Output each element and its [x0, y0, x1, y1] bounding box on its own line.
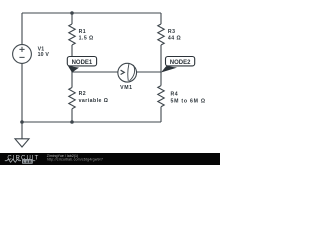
labels V1: [38, 47, 50, 59]
resistor R2: [69, 88, 75, 109]
wire voltmeter to NODE2: [137, 71, 162, 73]
footer bar: [0, 153, 220, 165]
svg-text:NODE2: NODE2: [170, 60, 191, 66]
wire left column bottom: [21, 63, 23, 138]
resistor R1: [69, 24, 75, 45]
svg-text:http://circuitlab.com/c6tg4rgw: http://circuitlab.com/c6tg4rgw9r7: [47, 158, 103, 162]
ground: [15, 139, 29, 147]
wire top rail: [22, 12, 161, 14]
svg-text:10 V: 10 V: [38, 52, 50, 58]
wire middle column NODE1-R2: [71, 72, 73, 88]
junction dot top middle: [70, 11, 74, 15]
labels R3: [168, 29, 181, 41]
wire bottom rail: [22, 121, 161, 123]
svg-text:R2: R2: [79, 91, 87, 97]
junction dot bottom middle: [70, 120, 74, 124]
wire middle column R1-NODE1: [71, 45, 73, 72]
voltage source V1: [13, 45, 32, 64]
labels R4: [171, 91, 206, 104]
svg-text:R3: R3: [168, 29, 176, 35]
svg-text:R4: R4: [171, 91, 179, 97]
wire middle column R2 bottom lead: [71, 109, 73, 122]
wire right column NODE2-R4: [160, 72, 162, 86]
svg-text:44 Ω: 44 Ω: [168, 35, 181, 41]
wire left column top: [21, 13, 23, 45]
node flag NODE2: [161, 57, 195, 73]
svg-text:LAB: LAB: [23, 159, 32, 164]
voltmeter VM1: [118, 63, 137, 82]
wire right column R3 top lead: [160, 13, 162, 24]
node flag NODE1: [67, 57, 96, 73]
svg-text:R1: R1: [79, 29, 87, 35]
wire NODE1 to voltmeter: [72, 71, 118, 73]
svg-text:variable Ω: variable Ω: [79, 98, 109, 104]
labels R1: [79, 29, 94, 41]
svg-text:VM1: VM1: [120, 85, 132, 91]
resistor R3: [158, 24, 164, 45]
labels R2: [79, 91, 109, 104]
wire middle column R1 top lead: [71, 13, 73, 24]
logo LAB box: [22, 159, 33, 164]
wire right column R4 bottom lead: [160, 107, 162, 122]
wire right column R3-NODE2: [160, 45, 162, 72]
svg-text:1.5 Ω: 1.5 Ω: [79, 35, 94, 41]
logo resistor zigzag: [5, 159, 21, 162]
junction dot bottom left: [20, 120, 24, 124]
svg-text:NODE1: NODE1: [72, 60, 93, 66]
svg-text:5M to 6M Ω: 5M to 6M Ω: [171, 98, 206, 104]
resistor R4: [158, 86, 164, 107]
